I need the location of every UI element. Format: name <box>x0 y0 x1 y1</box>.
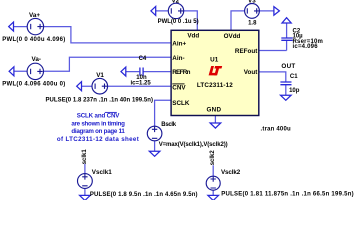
svg-text:ic=4.096: ic=4.096 <box>293 44 319 50</box>
svg-text:SCLK and CNV: SCLK and CNV <box>77 113 121 120</box>
svg-text:PULSE(0 1.8 237n .1n .1n 40n 1: PULSE(0 1.8 237n .1n .1n 40n 199.5n) <box>46 97 154 103</box>
svg-text:10p: 10p <box>289 88 300 94</box>
svg-text:of LTC2311-12 data sheet: of LTC2311-12 data sheet <box>57 136 139 143</box>
svg-text:GND: GND <box>206 107 221 114</box>
svg-text:PULSE(0 1.81 11.875n .1n .1n 6: PULSE(0 1.81 11.875n .1n .1n 66.5n 199.5… <box>221 192 354 198</box>
svg-text:sclk1: sclk1 <box>82 149 88 165</box>
svg-text:.tran 400u: .tran 400u <box>261 127 291 133</box>
svg-text:Va-: Va- <box>32 56 41 63</box>
svg-text:Vdd: Vdd <box>187 33 199 40</box>
svg-text:LTC2311-12: LTC2311-12 <box>197 82 233 89</box>
svg-text:PULSE(0 1.8 9.5n .1n .1n 4.65n: PULSE(0 1.8 9.5n .1n .1n 4.65n 9.5n) <box>90 192 198 198</box>
svg-text:OVdd: OVdd <box>224 33 241 40</box>
svg-text:C1: C1 <box>290 74 298 80</box>
svg-text:Vout: Vout <box>244 69 258 76</box>
svg-text:diagram on page 11: diagram on page 11 <box>71 128 125 135</box>
svg-text:REFRn: REFRn <box>172 69 190 76</box>
svg-text:REFout: REFout <box>235 48 258 55</box>
svg-text:ic=1.25: ic=1.25 <box>131 81 152 87</box>
svg-text:SCLK: SCLK <box>172 100 190 107</box>
svg-text:sclk2: sclk2 <box>210 150 216 166</box>
svg-text:Bsclk: Bsclk <box>161 122 176 128</box>
svg-text:PWL(0 0 400u 4.096): PWL(0 0 400u 4.096) <box>2 37 65 43</box>
svg-text:V=max(V(sclk1),V(sclk2)): V=max(V(sclk1),V(sclk2)) <box>159 142 228 148</box>
svg-text:OUT: OUT <box>281 63 295 70</box>
svg-text:V2: V2 <box>172 0 180 4</box>
svg-text:are shown in timing: are shown in timing <box>71 120 125 127</box>
svg-text:V1: V1 <box>96 72 104 79</box>
svg-text:U1: U1 <box>210 57 219 64</box>
svg-text:Vsclk1: Vsclk1 <box>92 169 112 176</box>
svg-text:V3: V3 <box>248 0 256 4</box>
svg-text:CNV: CNV <box>172 84 186 91</box>
svg-text:Va+: Va+ <box>29 12 40 19</box>
svg-text:PWL(0 4.096 400u 0): PWL(0 4.096 400u 0) <box>2 82 65 88</box>
svg-text:Ain+: Ain+ <box>172 41 186 48</box>
svg-text:Ain-: Ain- <box>172 55 184 62</box>
svg-text:Vsclk2: Vsclk2 <box>221 169 241 176</box>
svg-text:PWL(0 0 .1u 5): PWL(0 0 .1u 5) <box>158 19 199 25</box>
svg-text:C4: C4 <box>139 56 147 62</box>
svg-text:1.8: 1.8 <box>248 20 257 26</box>
